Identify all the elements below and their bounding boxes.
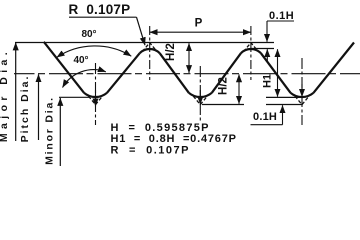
Pitch Dia. arrow line bbox=[38, 74, 40, 140]
dashed sharp tip crest C2 bbox=[244, 43, 257, 51]
thread profile flank wire 3 bbox=[160, 53, 189, 93]
thread profile flank wire 2 bbox=[107, 53, 140, 93]
centerline crest C1 bbox=[149, 26, 151, 80]
svg-text:P: P bbox=[195, 18, 203, 30]
svg-text:R = 0.107P: R = 0.107P bbox=[111, 145, 190, 157]
svg-text:Minor Dia.: Minor Dia. bbox=[44, 96, 56, 165]
dashed sharp tip valley V2 bbox=[193, 96, 207, 104]
svg-text:R 0.107P: R 0.107P bbox=[69, 2, 131, 17]
dashed sharp tip valley V3 bbox=[295, 96, 309, 104]
thread profile flank wire 6 bbox=[314, 43, 355, 93]
thread profile flank wire 1 bbox=[44, 42, 84, 93]
H1 dimension line bbox=[277, 49, 279, 96]
svg-text:40°: 40° bbox=[73, 55, 88, 66]
svg-text:H1: H1 bbox=[262, 74, 274, 88]
H/2 upper dimension line bbox=[188, 43, 190, 73]
crest arc C2 bbox=[241, 49, 261, 53]
crest top line ext right of C2 bbox=[251, 48, 274, 50]
dashed sharp tip valley V1 bbox=[89, 96, 103, 104]
svg-text:H/2: H/2 bbox=[218, 77, 230, 95]
down arrow on V2 centerline to sharp root bbox=[199, 90, 201, 104]
0.1H top lower up arrow bbox=[266, 49, 268, 62]
40 degree angle arc bbox=[63, 70, 106, 88]
crest arc C1 bbox=[140, 49, 160, 53]
svg-text:0.1H: 0.1H bbox=[269, 10, 294, 22]
svg-text:H1 = 0.8H =0.4767P: H1 = 0.8H =0.4767P bbox=[111, 133, 237, 145]
sharp root apex line right of V3 bbox=[266, 104, 302, 106]
root flat line right of V3 bbox=[266, 96, 302, 98]
svg-text:H/2: H/2 bbox=[165, 43, 177, 61]
H/2 lower dimension line bbox=[238, 74, 240, 103]
svg-text:0.1H: 0.1H bbox=[253, 111, 277, 123]
P dimension line bbox=[150, 31, 251, 33]
R leader to crest C1 bbox=[137, 17, 146, 45]
thread profile flank wire 4 bbox=[212, 53, 241, 93]
svg-text:80°: 80° bbox=[81, 29, 96, 40]
root arc valley V1 bbox=[84, 93, 107, 97]
svg-text:Pitch Dia.: Pitch Dia. bbox=[19, 75, 31, 143]
svg-text:Major Dia.: Major Dia. bbox=[0, 48, 10, 142]
centerline valley V3 bbox=[301, 58, 303, 125]
80 degree angle arc bbox=[57, 46, 132, 57]
centerline valley V1 bbox=[95, 63, 97, 125]
centerline valley V2 bbox=[199, 66, 201, 121]
centerline crest C2 bbox=[250, 26, 252, 80]
sharp root apex line ext from V2 bbox=[202, 104, 244, 106]
0.1H top underline bbox=[267, 20, 294, 22]
Minor Dia. arrow line bbox=[59, 98, 61, 166]
down arrow on V3 centerline to sharp root bbox=[301, 84, 303, 97]
down arrow on V1 centerline to sharp root bbox=[95, 90, 97, 106]
0.1H bottom leader up arrow bbox=[282, 105, 284, 125]
dashed sharp tip crest C1 bbox=[143, 43, 156, 51]
root arc valley V2 bbox=[189, 93, 212, 97]
Major Dia. arrow line bbox=[15, 43, 17, 142]
minor dia line (root flat, left) bbox=[59, 96, 90, 98]
R leader underline bbox=[69, 16, 137, 18]
0.1H top leader down arrow bbox=[266, 21, 268, 42]
root arc valley V3 bbox=[291, 93, 314, 97]
0.1H bottom leader underline bbox=[251, 124, 283, 126]
pitch line (dash-dot across) bbox=[14, 73, 360, 75]
thread profile flank wire 5 bbox=[261, 53, 291, 93]
sharp crest apex plane line bbox=[15, 42, 274, 44]
